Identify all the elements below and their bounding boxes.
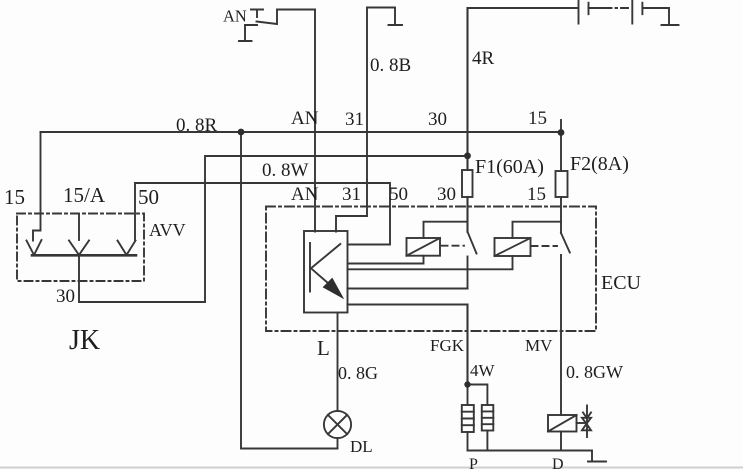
svg-text:50: 50	[389, 184, 408, 205]
svg-text:L: L	[317, 336, 330, 360]
svg-text:AN: AN	[223, 7, 247, 26]
svg-text:ECU: ECU	[601, 272, 642, 294]
svg-text:F2(8A): F2(8A)	[570, 153, 629, 175]
svg-text:F1(60A): F1(60A)	[475, 156, 544, 178]
svg-text:FGK: FGK	[430, 336, 465, 355]
svg-text:15: 15	[528, 108, 547, 129]
svg-text:0. 8W: 0. 8W	[262, 160, 309, 181]
svg-text:AVV: AVV	[149, 220, 186, 240]
svg-text:D: D	[552, 456, 564, 471]
svg-text:DL: DL	[350, 437, 373, 456]
svg-text:JK: JK	[69, 325, 100, 356]
svg-text:15: 15	[527, 184, 546, 205]
svg-text:AN: AN	[291, 108, 319, 129]
svg-text:0. 8B: 0. 8B	[370, 55, 411, 76]
svg-text:50: 50	[138, 185, 159, 209]
svg-text:4R: 4R	[472, 48, 495, 69]
svg-text:31: 31	[345, 109, 364, 130]
svg-text:15/A: 15/A	[63, 183, 106, 207]
svg-text:30: 30	[56, 286, 75, 307]
svg-text:30: 30	[428, 109, 447, 130]
svg-text:31: 31	[342, 184, 361, 205]
svg-text:AN: AN	[291, 184, 319, 205]
svg-text:0. 8GW: 0. 8GW	[566, 362, 623, 382]
svg-text:30: 30	[437, 184, 456, 205]
svg-text:P: P	[469, 456, 478, 471]
svg-text:15: 15	[4, 185, 25, 209]
svg-text:MV: MV	[525, 336, 553, 355]
svg-text:0. 8G: 0. 8G	[338, 363, 378, 383]
svg-text:4W: 4W	[470, 361, 496, 380]
svg-text:0. 8R: 0. 8R	[176, 115, 218, 136]
